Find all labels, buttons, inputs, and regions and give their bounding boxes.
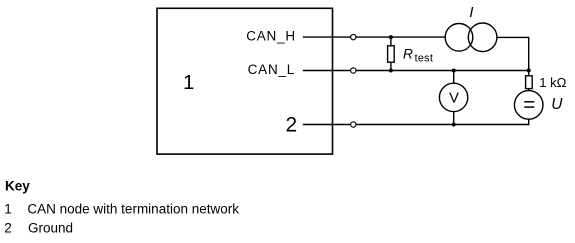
junction CAN_L / voltmeter — [452, 69, 456, 73]
svg-text:CAN_H: CAN_H — [246, 28, 296, 43]
wire CAN_H — [303, 36, 445, 38]
junction ground / voltmeter — [452, 123, 456, 127]
ammeter I left circle — [445, 24, 473, 52]
wire ammeter to 1k resistor — [497, 37, 529, 70]
svg-text:I: I — [469, 4, 474, 21]
voltage source = sign bottom bar — [524, 106, 534, 108]
wire resistor Rtest branch — [390, 37, 392, 70]
wire voltmeter branch — [453, 71, 455, 125]
svg-text:1 kΩ: 1 kΩ — [539, 75, 566, 90]
wire 1k resistor branch — [528, 71, 530, 92]
svg-text:2: 2 — [4, 220, 12, 235]
svg-text:Rtest: Rtest — [403, 46, 433, 64]
junction CAN_L / 1k — [527, 69, 531, 73]
wire ground line 2 — [303, 124, 529, 126]
svg-text:U: U — [551, 96, 563, 113]
ammeter I right circle — [468, 23, 497, 52]
terminal ground — [351, 122, 356, 127]
voltage source U circle — [514, 91, 543, 120]
terminal CAN_H — [351, 34, 356, 39]
svg-text:Key: Key — [5, 179, 30, 194]
wire source U to ground — [528, 118, 530, 125]
voltmeter V circle — [439, 83, 467, 111]
resistor Rtest — [388, 46, 395, 62]
junction CAN_L / Rtest — [389, 69, 393, 73]
svg-text:1: 1 — [4, 201, 12, 216]
voltage source = sign top bar — [524, 101, 534, 103]
terminal CAN_L — [351, 68, 356, 73]
CAN node box U1 — [157, 8, 333, 154]
svg-text:CAN node with termination netw: CAN node with termination network — [27, 201, 239, 216]
svg-text:V: V — [449, 91, 459, 107]
svg-text:1: 1 — [183, 71, 194, 94]
svg-text:Ground: Ground — [28, 220, 73, 235]
wire CAN_L — [303, 70, 529, 72]
junction CAN_H / Rtest — [389, 35, 393, 39]
resistor 1 kOhm — [526, 76, 533, 89]
svg-text:CAN_L: CAN_L — [248, 62, 296, 77]
svg-text:2: 2 — [286, 114, 298, 137]
